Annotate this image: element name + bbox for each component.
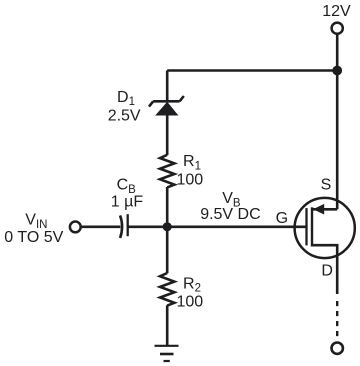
svg-text:12V: 12V (322, 3, 351, 20)
svg-text:100: 100 (177, 294, 204, 311)
svg-text:D1: D1 (117, 89, 135, 108)
svg-text:9.5V DC: 9.5V DC (200, 206, 260, 223)
svg-text:2.5V: 2.5V (108, 107, 141, 124)
svg-text:VIN: VIN (25, 211, 47, 231)
svg-text:0 TO 5V: 0 TO 5V (4, 229, 63, 246)
svg-text:100: 100 (177, 172, 204, 189)
svg-text:R1: R1 (183, 153, 201, 172)
svg-text:R2: R2 (183, 275, 201, 294)
svg-text:D: D (321, 263, 333, 280)
svg-text:1 µF: 1 µF (111, 193, 144, 210)
svg-text:G: G (276, 210, 288, 227)
svg-text:S: S (321, 176, 332, 193)
